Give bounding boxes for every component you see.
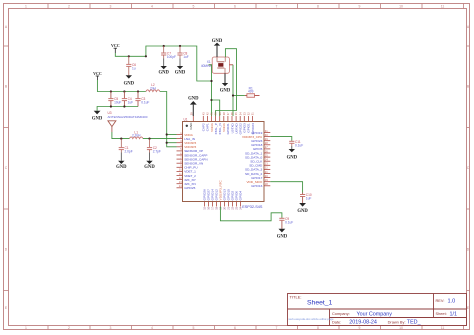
ground GND of C2 bbox=[144, 153, 155, 171]
svg-text:6: 6 bbox=[234, 326, 236, 330]
ground GND to chip top pin bbox=[188, 97, 199, 116]
svg-text:10: 10 bbox=[399, 326, 403, 330]
junction C2 tap bbox=[148, 138, 150, 140]
svg-text:5: 5 bbox=[193, 326, 195, 330]
wire VDD3P3_CPU to C11 bbox=[270, 137, 292, 141]
wire VDDA branch to top pin bbox=[212, 100, 220, 116]
svg-text:1uF: 1uF bbox=[183, 55, 189, 59]
svg-text:GND: GND bbox=[212, 39, 223, 44]
ground GND of C1 bbox=[116, 153, 127, 171]
svg-text:3: 3 bbox=[110, 326, 112, 330]
svg-text:8: 8 bbox=[317, 5, 319, 9]
svg-text:1: 1 bbox=[25, 5, 27, 9]
wire VCC1 to top rail bbox=[115, 46, 211, 81]
svg-text:1.0: 1.0 bbox=[448, 299, 456, 305]
svg-text:6: 6 bbox=[234, 5, 236, 9]
svg-text:GND: GND bbox=[297, 209, 308, 214]
junction C6 tap bbox=[128, 55, 130, 57]
svg-text:GND: GND bbox=[175, 71, 186, 76]
capacitor C10 bbox=[300, 193, 312, 204]
svg-text:0.1uF: 0.1uF bbox=[141, 101, 149, 105]
wire VDDA pin1 stub bbox=[167, 134, 177, 136]
svg-text:100pF: 100pF bbox=[167, 55, 176, 59]
ground GND of C10 bbox=[297, 203, 308, 214]
svg-text:TED_: TED_ bbox=[407, 320, 422, 326]
svg-text:1: 1 bbox=[25, 326, 27, 330]
ground GND of C9 bbox=[277, 229, 288, 240]
junction C8 tap bbox=[179, 45, 181, 47]
svg-text:Your Company: Your Company bbox=[357, 311, 393, 317]
ground GND of C11 bbox=[287, 146, 298, 160]
chip top pins bbox=[189, 112, 255, 135]
svg-text:GND: GND bbox=[144, 165, 155, 170]
svg-text:GND: GND bbox=[124, 81, 135, 86]
capacitor C9 bbox=[279, 217, 293, 229]
svg-text:GND: GND bbox=[220, 88, 231, 93]
svg-text:1uF: 1uF bbox=[128, 101, 134, 105]
svg-text:2nH: 2nH bbox=[150, 87, 157, 91]
chip right pins bbox=[242, 129, 270, 188]
junction C3 tap bbox=[137, 90, 139, 92]
capacitor C8 bbox=[177, 46, 188, 59]
IC U1 ESP32-S4S bbox=[183, 117, 265, 209]
svg-text:web.easyeda-doc.article.editor: web.easyeda-doc.article.editor-page bbox=[289, 317, 335, 321]
svg-text:VCC: VCC bbox=[93, 71, 102, 76]
svg-text:2.0pF: 2.0pF bbox=[125, 150, 133, 154]
junction rail corner bbox=[145, 55, 147, 57]
junction XTAL_P rail bbox=[210, 80, 212, 82]
wire crystal right pin to R1 and chip bbox=[233, 65, 245, 116]
capacitor C4 bbox=[122, 92, 133, 107]
junction VDD rail pin1 bbox=[166, 133, 168, 135]
svg-text:2: 2 bbox=[68, 5, 70, 9]
svg-text:Sheet_1: Sheet_1 bbox=[307, 300, 333, 307]
ground GND below crystal bbox=[220, 73, 231, 93]
wire VCC2 to cap rail and L2 bbox=[97, 80, 145, 92]
svg-text:GPIO25: GPIO25 bbox=[184, 186, 195, 190]
wire cap bottom rail bbox=[97, 107, 138, 111]
svg-text:11: 11 bbox=[441, 5, 445, 9]
chip bottom pins bbox=[203, 179, 243, 209]
svg-text:0.1uF: 0.1uF bbox=[295, 143, 303, 147]
svg-text:Company:: Company: bbox=[332, 311, 350, 316]
svg-text:0.1uF: 0.1uF bbox=[285, 220, 293, 224]
svg-text:GPIO4: GPIO4 bbox=[239, 191, 243, 201]
svg-text:2.7pF: 2.7pF bbox=[153, 150, 161, 154]
wire XTAL_P net (left of crystal) bbox=[209, 65, 212, 116]
svg-text:7: 7 bbox=[276, 326, 278, 330]
svg-text:4: 4 bbox=[151, 5, 153, 9]
ground GND of C7 bbox=[158, 59, 169, 76]
title block bbox=[288, 294, 467, 326]
junction bottom rail C5 bbox=[110, 105, 112, 107]
capacitor C2 bbox=[147, 139, 161, 154]
svg-text:2019-08-24: 2019-08-24 bbox=[349, 320, 377, 326]
wire VDD_SDIO to C10 bbox=[270, 182, 302, 193]
wire antenna to L1 bbox=[112, 132, 129, 139]
svg-text:Sheet:: Sheet: bbox=[436, 311, 447, 316]
junction C7 tap bbox=[163, 45, 165, 47]
svg-text:10: 10 bbox=[399, 5, 403, 9]
inductor L1 bbox=[129, 130, 143, 138]
svg-text:2: 2 bbox=[68, 326, 70, 330]
svg-text:1uF: 1uF bbox=[306, 197, 312, 201]
junction C5 tap bbox=[110, 90, 112, 92]
resistor R1 bbox=[245, 86, 260, 97]
svg-text:GPIO16: GPIO16 bbox=[251, 184, 262, 188]
junction VDD rail pin3 bbox=[166, 142, 168, 144]
wire VDD3P3 pin3 stub bbox=[167, 142, 177, 144]
svg-text:9: 9 bbox=[359, 5, 361, 9]
svg-text:11: 11 bbox=[441, 326, 445, 330]
svg-text:GND: GND bbox=[158, 71, 169, 76]
svg-text:VCC: VCC bbox=[111, 43, 120, 48]
wire L2 to VDD rail bbox=[160, 92, 177, 147]
wire L1 to LNA_IN pin2 bbox=[143, 138, 177, 140]
svg-text:9: 9 bbox=[359, 326, 361, 330]
svg-text:31: 31 bbox=[251, 112, 255, 115]
capacitor C7 bbox=[161, 46, 176, 59]
svg-text:7: 7 bbox=[276, 5, 278, 9]
ground GND of cap rail bbox=[92, 111, 103, 122]
svg-text:ANTENNA2250DAT44M0400: ANTENNA2250DAT44M0400 bbox=[108, 115, 148, 119]
wire XTAL_N loop (crystal top to right) bbox=[216, 49, 237, 116]
antenna U3 bbox=[108, 111, 148, 132]
chip left pins 1-14 bbox=[177, 131, 208, 190]
svg-text:3: 3 bbox=[110, 5, 112, 9]
junction R1 tee bbox=[232, 94, 234, 96]
svg-text:TITLE:: TITLE: bbox=[290, 294, 302, 299]
svg-text:1u: 1u bbox=[132, 66, 136, 70]
junction C4 tap bbox=[123, 90, 125, 92]
svg-text:GND: GND bbox=[287, 155, 298, 160]
ground GND of C8 bbox=[175, 59, 186, 76]
svg-text:GND: GND bbox=[116, 165, 127, 170]
svg-text:4: 4 bbox=[151, 326, 153, 330]
svg-text:1/1: 1/1 bbox=[450, 311, 458, 317]
power flag VCC (left) bbox=[93, 71, 102, 80]
junction bottom rail C4 bbox=[123, 105, 125, 107]
power flag VCC (top) bbox=[111, 43, 120, 53]
svg-text:GPIO23: GPIO23 bbox=[251, 123, 255, 134]
capacitor C11 bbox=[289, 140, 303, 147]
ground GND above crystal bbox=[212, 39, 223, 57]
svg-text:GND: GND bbox=[92, 117, 103, 122]
svg-text:2.2nH: 2.2nH bbox=[132, 134, 141, 138]
svg-text:ESP32-S4S: ESP32-S4S bbox=[242, 205, 263, 209]
svg-text:GND: GND bbox=[188, 97, 199, 102]
svg-text:REV:: REV: bbox=[436, 298, 445, 303]
svg-text:8: 8 bbox=[317, 326, 319, 330]
svg-text:GND: GND bbox=[189, 122, 193, 130]
svg-text:10uF: 10uF bbox=[114, 101, 121, 105]
capacitor C3 bbox=[135, 92, 149, 107]
capacitor C6 bbox=[126, 56, 136, 75]
inductor L2 bbox=[146, 83, 160, 91]
capacitor C5 bbox=[108, 92, 121, 107]
svg-text:U1: U1 bbox=[184, 117, 188, 121]
crystal X1 40MHz bbox=[201, 57, 233, 73]
capacitor C1 bbox=[119, 139, 133, 154]
wire VDD3P3_RTC to C9 bbox=[220, 207, 282, 221]
svg-text:GND: GND bbox=[277, 235, 288, 240]
ground GND of C6 bbox=[124, 75, 135, 86]
svg-text:499: 499 bbox=[248, 90, 254, 94]
junction VDDA branch bbox=[210, 99, 212, 101]
junction C1 tap bbox=[120, 138, 122, 140]
svg-text:5: 5 bbox=[193, 5, 195, 9]
svg-text:Date:: Date: bbox=[332, 319, 341, 324]
svg-text:Drawn By:: Drawn By: bbox=[388, 319, 406, 324]
